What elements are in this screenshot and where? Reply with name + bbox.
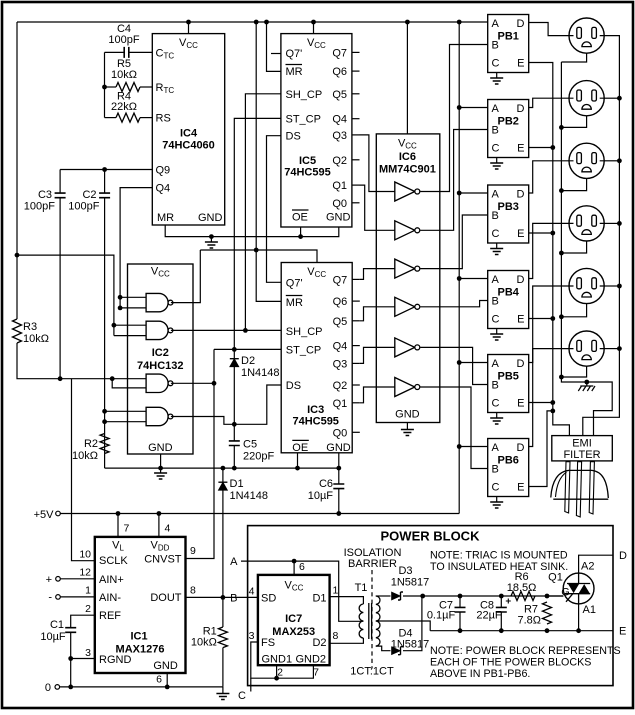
wire PB2 E to E bus bbox=[529, 147, 553, 149]
capacitor C1 10uF bbox=[71, 615, 95, 628]
wire hot rail right side bbox=[583, 36, 620, 436]
svg-text:GND: GND bbox=[395, 409, 420, 421]
resistor R2 10k bbox=[100, 434, 109, 454]
node C6 bottom junction +5V rail bbox=[336, 511, 341, 516]
svg-text:NOTE: TRIAC IS MOUNTED: NOTE: TRIAC IS MOUNTED bbox=[430, 550, 568, 562]
ground symbol R1 bbox=[222, 687, 224, 694]
svg-text:IC5: IC5 bbox=[299, 155, 316, 167]
svg-text:10kΩ: 10kΩ bbox=[191, 637, 217, 649]
svg-text:Q3: Q3 bbox=[332, 130, 347, 142]
svg-text:OE: OE bbox=[292, 442, 308, 454]
wire OE IC3 drop bbox=[297, 453, 299, 468]
node H2 junction MR vertical bbox=[254, 248, 259, 253]
svg-text:FS: FS bbox=[261, 637, 275, 649]
wire IC3 Q6 stub bbox=[352, 300, 360, 302]
node ground row junction IC4 bbox=[209, 234, 214, 239]
wire outlet2 right stub bbox=[604, 97, 619, 99]
svg-text:B: B bbox=[492, 296, 499, 308]
wire secondary center tap to E row bbox=[376, 621, 430, 631]
node VCC rail junction A-bus bbox=[457, 20, 462, 25]
node neutral bus junction outlet3 bbox=[559, 188, 564, 193]
svg-text:C3: C3 bbox=[38, 189, 52, 201]
wire GND IC3 drop and C6 bbox=[338, 453, 340, 468]
node D2 bottom junction DS row bbox=[232, 422, 237, 427]
nand gate IC2A bbox=[120, 296, 146, 298]
AC plug prongs bbox=[565, 462, 570, 513]
IC IC3 74HC595 bbox=[281, 263, 352, 453]
wire secondary top to D3 bbox=[376, 595, 391, 597]
svg-text:A: A bbox=[492, 442, 500, 454]
wire IC4 VCC to rail bbox=[188, 22, 190, 34]
svg-text:TO INSULATED HEAT SINK.: TO INSULATED HEAT SINK. bbox=[430, 561, 568, 573]
svg-text:7.8Ω: 7.8Ω bbox=[517, 615, 541, 627]
diode D4 1N5817 bbox=[392, 647, 401, 655]
node +5V junction VL bbox=[116, 511, 121, 516]
svg-text:PB1: PB1 bbox=[497, 31, 518, 43]
power block PB2 box bbox=[488, 100, 529, 158]
svg-text:D1: D1 bbox=[230, 478, 244, 490]
wire IC3 Q4 stub bbox=[352, 345, 360, 347]
node VCC rail junction IC5 bbox=[311, 20, 316, 25]
svg-text:74HC4060: 74HC4060 bbox=[162, 140, 215, 152]
POWER BLOCK box bbox=[248, 526, 613, 686]
wire IC5 Q4 stub bbox=[352, 118, 360, 120]
capacitor C3 100pF bbox=[59, 170, 61, 194]
wire PB2 D to outlet2 bbox=[529, 98, 569, 107]
wire RGND row bbox=[71, 658, 95, 660]
svg-text:Q5: Q5 bbox=[333, 316, 348, 328]
svg-text:B: B bbox=[492, 40, 499, 52]
wire R3 bottom row to gate3 bbox=[17, 343, 146, 379]
svg-text:R1: R1 bbox=[203, 625, 217, 637]
wire inverter2 output to PB2 B bbox=[420, 130, 488, 231]
wire C4-R5-R4 left vertical bbox=[104, 52, 106, 117]
svg-text:0.1µF: 0.1µF bbox=[427, 610, 456, 622]
svg-text:Q6: Q6 bbox=[332, 66, 347, 78]
node VCC rail junction MR-IC3 drop bbox=[254, 20, 259, 25]
resistor R1 10k bbox=[222, 597, 224, 627]
wire VL drop bbox=[117, 514, 119, 537]
wire ISOLATION BARRIER dashed bbox=[371, 570, 373, 669]
ground symbol IC4/IC5 bbox=[210, 237, 212, 242]
svg-text:6: 6 bbox=[299, 561, 305, 573]
node neutral bus earth junction bbox=[584, 380, 589, 385]
node VCC rail junction IC6 bbox=[405, 20, 410, 25]
svg-text:74HC595: 74HC595 bbox=[284, 167, 330, 179]
node hot rail junction outlet2 bbox=[617, 96, 622, 101]
wire PB4 E to E bus bbox=[529, 318, 553, 320]
svg-text:GND: GND bbox=[198, 212, 223, 224]
wire IC5 Q1 stub bbox=[352, 184, 360, 186]
wire DOUT to B row bbox=[186, 596, 258, 598]
wire left vertical from rail bbox=[16, 22, 18, 319]
ground symbol PB2 bbox=[496, 158, 498, 164]
wire PB4 D to outlet4 bbox=[529, 223, 569, 278]
svg-text:IC6: IC6 bbox=[399, 151, 416, 163]
svg-text:SCLK: SCLK bbox=[99, 555, 128, 567]
svg-text:IC1: IC1 bbox=[130, 631, 147, 643]
svg-text:E: E bbox=[517, 314, 524, 326]
capacitor C8 22uF bbox=[500, 596, 502, 607]
node SH_CP row junction IC5 drop bbox=[243, 328, 248, 333]
node neutral bus junction outlet6 bbox=[559, 375, 564, 380]
svg-text:B: B bbox=[230, 592, 237, 604]
svg-text:Q2: Q2 bbox=[332, 155, 347, 167]
wire IC5 Q6 stub bbox=[352, 70, 360, 72]
wire A bus vertical bbox=[458, 22, 460, 512]
wire IC5 Q3 to inverter1 bbox=[360, 135, 395, 192]
svg-text:4: 4 bbox=[165, 523, 171, 535]
IC IC7 MAX253 bbox=[258, 575, 330, 665]
wire IC5 MR-GND bottom row bbox=[165, 225, 339, 237]
node H1 junction on left vertical bbox=[15, 253, 20, 258]
wire IC5 Q7' stub bbox=[271, 53, 281, 55]
ground symbol PB1 bbox=[496, 73, 498, 79]
inverter IC6 F bbox=[395, 378, 415, 397]
wire outlet3 right stub bbox=[604, 160, 619, 162]
svg-text:Q4: Q4 bbox=[333, 341, 348, 353]
node E row junction R7 bbox=[545, 628, 550, 633]
svg-text:1N5817: 1N5817 bbox=[391, 639, 430, 651]
node gate1 input A junction bbox=[118, 295, 123, 300]
svg-text:MR: MR bbox=[157, 212, 174, 224]
diode D3 1N5817 bbox=[392, 592, 401, 600]
node C5 bottom junction ground row bbox=[232, 466, 237, 471]
svg-text:B: B bbox=[492, 464, 499, 476]
svg-text:1N5817: 1N5817 bbox=[391, 577, 430, 589]
svg-text:RGND: RGND bbox=[99, 654, 131, 666]
capacitor C6 10uF bbox=[338, 468, 340, 484]
nand gate IC2B bbox=[114, 324, 146, 326]
power block PB5 box bbox=[488, 355, 529, 413]
resistor R6 18.5ohm bbox=[511, 592, 535, 601]
wire A bus to PB5 bbox=[459, 362, 488, 364]
svg-text:+: + bbox=[46, 574, 52, 586]
wire MR-IC5 vertical from rail bbox=[267, 22, 281, 71]
svg-text:FILTER: FILTER bbox=[563, 449, 600, 461]
svg-text:D1: D1 bbox=[312, 592, 326, 604]
AC plug bell bbox=[551, 470, 609, 498]
wire outlet5 right stub bbox=[604, 285, 619, 287]
outlet socket 2 bbox=[569, 81, 604, 116]
svg-text:IC3: IC3 bbox=[307, 404, 324, 416]
node neutral bus junction outlet4 bbox=[559, 251, 564, 256]
wire IC3 Q3 stub bbox=[352, 362, 360, 364]
wire triac A1 to E row bbox=[578, 604, 580, 631]
node E bus junction PB5 bbox=[550, 400, 555, 405]
svg-text:3: 3 bbox=[249, 630, 255, 642]
node A row junction IC7 VCC bbox=[292, 559, 297, 564]
wire PB1 D to outlet1 bbox=[529, 23, 569, 36]
wire inverter5 output to PB5 B bbox=[420, 347, 488, 384]
node gate4 input A junction bbox=[102, 409, 107, 414]
svg-text:C: C bbox=[492, 482, 500, 494]
wire IC5 Q1 to inverter2 bbox=[360, 185, 395, 230]
svg-text:EMI: EMI bbox=[572, 438, 592, 450]
outlet socket 4 bbox=[569, 206, 604, 241]
node top row junction C8 bbox=[499, 594, 504, 599]
svg-text:D2: D2 bbox=[241, 355, 255, 367]
wire VCC top rail bbox=[17, 21, 488, 23]
svg-text:E: E bbox=[619, 626, 626, 638]
svg-text:0: 0 bbox=[45, 682, 51, 694]
wire IC3 Q1 stub bbox=[352, 402, 360, 404]
wire 0 row bbox=[60, 686, 223, 688]
wire IC5 Q5 stub bbox=[352, 93, 360, 95]
svg-text:+5V: +5V bbox=[34, 509, 55, 521]
wire outlet4 bottom to neutral bus bbox=[561, 241, 586, 253]
node hot rail junction outlet6 bbox=[617, 346, 622, 351]
wire A bus to PB2 bbox=[459, 107, 488, 109]
node E row junction C8 bbox=[499, 628, 504, 633]
svg-text:GND: GND bbox=[326, 212, 351, 224]
svg-text:100pF: 100pF bbox=[24, 200, 55, 212]
node ST_CP row junction D2 vertical bbox=[232, 347, 237, 352]
svg-text:C6: C6 bbox=[319, 478, 333, 490]
inverter IC6 C bbox=[395, 259, 415, 278]
node A bus junction PB5 bbox=[457, 360, 462, 365]
svg-text:18.5Ω: 18.5Ω bbox=[507, 582, 537, 594]
svg-text:A: A bbox=[492, 18, 500, 30]
svg-text:E: E bbox=[517, 58, 524, 70]
svg-text:T1: T1 bbox=[355, 582, 368, 594]
wire outlet6 bottom to neutral bus bbox=[561, 366, 586, 377]
svg-text:22kΩ: 22kΩ bbox=[111, 101, 137, 113]
svg-text:MR: MR bbox=[286, 66, 303, 78]
svg-text:DS: DS bbox=[286, 131, 301, 143]
svg-text:Q7: Q7 bbox=[333, 274, 348, 286]
svg-text:MM74C901: MM74C901 bbox=[379, 164, 436, 176]
svg-text:Q7': Q7' bbox=[286, 277, 303, 289]
wire triac gate bbox=[547, 595, 563, 597]
resistor R3 10k bbox=[13, 319, 22, 343]
svg-text:PB5: PB5 bbox=[497, 371, 518, 383]
node gate2 input A junction bbox=[112, 323, 117, 328]
wire IC5 Q0 stub bbox=[352, 202, 360, 204]
wire IC7 VCC drop bbox=[293, 561, 295, 575]
svg-text:D3: D3 bbox=[398, 565, 412, 577]
wire Q4 row bbox=[120, 188, 152, 308]
node E bus junction PB4 bbox=[550, 316, 555, 321]
svg-text:PB3: PB3 bbox=[497, 201, 518, 213]
wire A bus to PB3 bbox=[459, 192, 488, 194]
svg-text:PB2: PB2 bbox=[497, 116, 518, 128]
svg-text:A: A bbox=[492, 103, 500, 115]
svg-text:A: A bbox=[492, 358, 500, 370]
node top row junction R7 bbox=[545, 594, 550, 599]
svg-text:10µF: 10µF bbox=[40, 631, 66, 643]
wire +5V rail right end to A bus bbox=[458, 512, 460, 514]
svg-text:Q1: Q1 bbox=[548, 572, 563, 584]
svg-text:D: D bbox=[619, 550, 627, 562]
node Q9 C2 junction bbox=[102, 167, 107, 172]
svg-text:C: C bbox=[492, 143, 500, 155]
svg-text:A: A bbox=[492, 274, 500, 286]
svg-text:Q4: Q4 bbox=[156, 183, 171, 195]
svg-text:22µF: 22µF bbox=[476, 610, 502, 622]
transformer T1 secondary bbox=[376, 596, 380, 646]
wire triac A2 to D pin bbox=[579, 555, 613, 573]
svg-text:PB4: PB4 bbox=[497, 287, 519, 299]
svg-text:D: D bbox=[517, 358, 525, 370]
svg-text:C: C bbox=[492, 228, 500, 240]
resistor R4 22k bbox=[105, 117, 117, 119]
diode D2 1N4148 bbox=[233, 349, 235, 358]
wire outlet6 right stub bbox=[604, 348, 619, 350]
node A bus junction PB6 bbox=[457, 444, 462, 449]
wire ST_CP IC5 vertical bbox=[234, 118, 281, 349]
ground symbol PB3 bbox=[496, 243, 498, 249]
svg-text:74HC595: 74HC595 bbox=[292, 416, 338, 428]
capacitor C7 0.1uF bbox=[459, 596, 461, 607]
wire IC3 Q7 to inverter3 bbox=[360, 269, 395, 280]
svg-text:10: 10 bbox=[79, 549, 91, 561]
svg-text:C: C bbox=[492, 58, 500, 70]
svg-text:C1: C1 bbox=[50, 619, 64, 631]
wire inverter1 output to PB1 B bbox=[420, 45, 488, 192]
wire secondary bottom to D4 bbox=[376, 646, 391, 651]
svg-text:8: 8 bbox=[190, 585, 196, 597]
node B row junction D1 R1 bbox=[221, 595, 226, 600]
node C1 RGND junction bbox=[68, 656, 73, 661]
resistor R5 10k bbox=[105, 86, 117, 88]
ground symbol IC2 bbox=[160, 468, 162, 473]
svg-text:Q2: Q2 bbox=[333, 380, 348, 392]
node IC5 OE junction bbox=[298, 234, 303, 239]
node +5V junction VDD bbox=[157, 511, 162, 516]
wire inverter4 output to PB4 B bbox=[420, 301, 488, 307]
wire Q9 row bbox=[60, 169, 152, 171]
svg-text:2: 2 bbox=[85, 603, 91, 615]
outlet socket 5 bbox=[569, 268, 604, 303]
svg-text:BARRIER: BARRIER bbox=[348, 558, 397, 570]
node IC2 gnd junction bbox=[158, 466, 163, 471]
wire middle ground row bbox=[105, 467, 340, 469]
node E row junction C7 bbox=[458, 628, 463, 633]
node GND1 junction bbox=[274, 676, 279, 681]
svg-text:MAX253: MAX253 bbox=[272, 626, 315, 638]
svg-text:100pF: 100pF bbox=[68, 200, 99, 212]
wire DS-IC5 to Q7-IC3 bbox=[267, 136, 282, 283]
svg-text:E: E bbox=[517, 228, 524, 240]
svg-text:SH_CP: SH_CP bbox=[286, 326, 323, 338]
node gate3 output junction bbox=[212, 381, 217, 386]
svg-text:C2: C2 bbox=[82, 189, 96, 201]
svg-text:E: E bbox=[517, 398, 524, 410]
node VCC rail junction MR-IC5 drop bbox=[264, 20, 269, 25]
wire PB5 E to E bus bbox=[529, 402, 553, 404]
inverter IC6 A bbox=[395, 182, 415, 201]
svg-text:12: 12 bbox=[79, 567, 91, 579]
svg-text:MR: MR bbox=[286, 297, 303, 309]
svg-text:B: B bbox=[492, 125, 499, 137]
svg-text:D: D bbox=[517, 274, 525, 286]
IC IC4 74HC4060 bbox=[152, 34, 224, 225]
node R5 R4 junction bbox=[102, 85, 107, 90]
wire H2 gate1 output to IC3 VCC bbox=[200, 250, 317, 263]
svg-text:PB6: PB6 bbox=[497, 455, 518, 467]
wire VDD drop bbox=[158, 514, 160, 537]
wire gate1 output up to H2 bbox=[171, 250, 200, 303]
svg-text:1: 1 bbox=[85, 585, 91, 597]
svg-text:C5: C5 bbox=[243, 439, 257, 451]
svg-text:100pF: 100pF bbox=[108, 34, 139, 46]
svg-text:1CT:1CT: 1CT:1CT bbox=[350, 666, 394, 678]
IC IC1 MAX1276 bbox=[95, 537, 186, 673]
svg-text:A2: A2 bbox=[581, 561, 594, 573]
diode D1 1N4148 bbox=[222, 468, 224, 481]
outlet socket 3 bbox=[569, 143, 604, 178]
wire IC3 Q7 stub bbox=[352, 278, 360, 280]
svg-text:10kΩ: 10kΩ bbox=[72, 450, 98, 462]
svg-text:AIN+: AIN+ bbox=[99, 574, 124, 586]
wire MR-IC3 vertical from rail bbox=[256, 22, 281, 301]
svg-text:A: A bbox=[492, 189, 500, 201]
svg-text:Q9: Q9 bbox=[156, 165, 171, 177]
inverter IC6 B bbox=[395, 221, 415, 240]
IC IC2 74HC132 bbox=[128, 264, 194, 454]
transformer T1 primary bbox=[330, 597, 364, 604]
svg-text:10kΩ: 10kΩ bbox=[111, 69, 137, 81]
nand gate IC2C bbox=[112, 379, 146, 388]
svg-text:A1: A1 bbox=[583, 604, 596, 616]
svg-text:4: 4 bbox=[249, 586, 255, 598]
wire IC3 Q2 stub bbox=[352, 384, 360, 386]
svg-text:10µF: 10µF bbox=[308, 490, 334, 502]
node C6 top junction bbox=[336, 466, 341, 471]
svg-text:AIN-: AIN- bbox=[99, 592, 121, 604]
wire PB5 D to outlet5 bbox=[529, 286, 569, 363]
node gate3 input B junction bbox=[110, 376, 115, 381]
svg-text:Q5: Q5 bbox=[332, 89, 347, 101]
ground symbol PB6 bbox=[496, 497, 498, 503]
svg-text:8: 8 bbox=[333, 630, 339, 642]
svg-text:Q0: Q0 bbox=[332, 198, 347, 210]
svg-text:IC7: IC7 bbox=[285, 613, 302, 625]
svg-text:GND2: GND2 bbox=[295, 654, 326, 666]
capacitor C4 100pF bbox=[105, 51, 125, 53]
wire IC3 Q5 to inverter4 bbox=[360, 307, 395, 321]
wire SCLK vertical from R3 row bbox=[72, 379, 95, 561]
node gate1 input B junction bbox=[118, 306, 123, 311]
svg-text:D: D bbox=[517, 18, 525, 30]
svg-text:RS: RS bbox=[156, 113, 171, 125]
wire PB6 D to outlet6 bbox=[529, 349, 569, 447]
wire E bus vertical bbox=[529, 63, 570, 436]
svg-text:IC2: IC2 bbox=[152, 347, 169, 359]
wire gate3 output to ST bus bbox=[171, 382, 214, 384]
svg-text:6: 6 bbox=[156, 673, 162, 685]
svg-text:ABOVE IN PB1-PB6.: ABOVE IN PB1-PB6. bbox=[430, 668, 530, 680]
svg-text:DS: DS bbox=[286, 380, 301, 392]
svg-text:B: B bbox=[492, 210, 499, 222]
svg-text:1N4148: 1N4148 bbox=[230, 490, 269, 502]
svg-text:C: C bbox=[492, 398, 500, 410]
node hot rail junction outlet3 bbox=[617, 158, 622, 163]
node 0 row junction C1 bbox=[68, 685, 73, 690]
node C3 bottom junction bbox=[58, 376, 63, 381]
wire IC1 GND pin drop bbox=[166, 673, 168, 687]
svg-text:GND: GND bbox=[153, 660, 178, 672]
svg-text:-: - bbox=[48, 592, 52, 604]
triac Q1 bbox=[563, 573, 594, 604]
svg-text:G: G bbox=[561, 587, 570, 599]
node gate4 input B junction bbox=[102, 419, 107, 424]
wire outlet5 bottom to neutral bus bbox=[561, 304, 586, 317]
node E bus junction PB2 bbox=[550, 145, 555, 150]
svg-text:ST_CP: ST_CP bbox=[286, 113, 321, 125]
svg-text:Q1: Q1 bbox=[333, 398, 348, 410]
